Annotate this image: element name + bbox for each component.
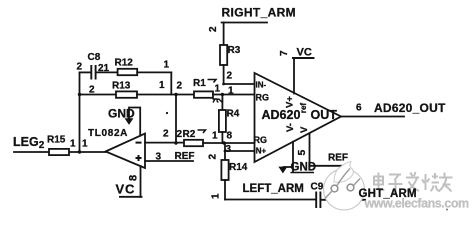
- resistor R14 body: [221, 160, 228, 180]
- svg-text:OUT: OUT: [311, 108, 338, 122]
- pin tick of R2: [198, 130, 206, 133]
- svg-text:GHT_ARM: GHT_ARM: [359, 188, 417, 200]
- wire R3 top lead: [223, 23, 225, 46]
- svg-text:6: 6: [356, 103, 362, 114]
- tick below R1 pin: [213, 99, 218, 103]
- svg-text:2: 2: [77, 62, 83, 73]
- svg-text:LEFT_ARM: LEFT_ARM: [243, 183, 304, 195]
- wire R12 right: [137, 71, 171, 73]
- svg-text:21: 21: [98, 63, 110, 74]
- wire RIGHT_ARM top: [222, 22, 267, 24]
- svg-text:8: 8: [227, 131, 233, 142]
- svg-text:2: 2: [89, 85, 95, 96]
- svg-text:5: 5: [296, 150, 308, 156]
- svg-text:RG: RG: [256, 93, 270, 103]
- resistor R2 body: [184, 140, 203, 146]
- wire C8 row left: [80, 71, 91, 73]
- wire IN+ pin3: [225, 150, 255, 152]
- resistor R1 body: [194, 91, 213, 97]
- svg-text:1: 1: [159, 80, 165, 91]
- svg-text:R4: R4: [227, 109, 240, 120]
- wire inverting node vertical: [175, 95, 177, 144]
- resistor R3 body: [220, 45, 227, 65]
- watermark chinese glyphs: [374, 172, 453, 193]
- svg-text:2: 2: [163, 129, 169, 140]
- wire R3 bottom lead: [223, 65, 225, 84]
- svg-text:1: 1: [211, 193, 222, 199]
- resistor R15 body: [49, 149, 69, 155]
- svg-text:R14: R14: [229, 162, 248, 173]
- ground arrow AD620: [278, 167, 287, 174]
- svg-text:R1: R1: [193, 78, 206, 89]
- wire corner down to R13 row: [170, 72, 172, 94]
- wire AD620 vcc pin7: [293, 58, 295, 94]
- wire noninverting REF row: [145, 160, 193, 162]
- svg-text:7: 7: [279, 50, 290, 56]
- svg-text:C8: C8: [88, 52, 101, 63]
- svg-text:TL082A: TL082A: [88, 128, 128, 139]
- svg-text:1: 1: [215, 84, 221, 95]
- wire down to R14: [224, 143, 226, 160]
- svg-text:AD620: AD620: [262, 108, 301, 122]
- power bar VC TL082: [120, 196, 142, 198]
- resistor R12 body: [118, 69, 138, 75]
- svg-text:GND: GND: [291, 162, 317, 174]
- svg-text:2: 2: [227, 71, 233, 82]
- wire IN- pin2: [224, 83, 255, 85]
- svg-text:AD620_OUT: AD620_OUT: [374, 101, 446, 115]
- wire R14 bottom lead: [224, 180, 226, 200]
- plus sign TL082: [136, 155, 142, 161]
- svg-text:2: 2: [177, 81, 183, 92]
- svg-text:V+: V+: [285, 96, 296, 108]
- wire R1 to RG pin1: [213, 94, 255, 96]
- svg-text:GND: GND: [108, 107, 135, 121]
- wire R4 bottom lead: [221, 132, 223, 143]
- resistor R13 body: [116, 91, 137, 97]
- minus sign TL082: [136, 142, 142, 144]
- svg-text:3: 3: [226, 144, 232, 155]
- capacitor C8 bars: [91, 66, 95, 79]
- svg-text:2: 2: [215, 98, 225, 103]
- svg-text:R3: R3: [228, 45, 241, 56]
- svg-text:2: 2: [208, 26, 219, 32]
- svg-text:1: 1: [164, 60, 170, 71]
- resistor R4 body: [219, 110, 226, 132]
- wire R13 to R1: [137, 94, 194, 96]
- svg-text:R15: R15: [47, 135, 66, 146]
- wire R4 top lead: [221, 95, 223, 111]
- svg-text:REF: REF: [175, 151, 195, 162]
- svg-text:1: 1: [228, 86, 234, 97]
- op-amp U3 triangle AD620: [255, 73, 342, 162]
- wire AD620 ref pin5: [309, 134, 311, 166]
- svg-text:R12: R12: [115, 58, 134, 69]
- wire inverting input row: [145, 142, 184, 144]
- power bar REF: [310, 165, 343, 167]
- wire output row: [14, 151, 106, 153]
- svg-text:1: 1: [70, 139, 76, 150]
- wire AD620 output pin6: [341, 116, 404, 118]
- svg-text:2: 2: [208, 154, 219, 160]
- svg-text:VC: VC: [297, 47, 312, 59]
- wire LEFT_ARM bottom: [225, 199, 315, 201]
- svg-text:R2: R2: [183, 129, 196, 140]
- capacitor C9 bars: [316, 193, 320, 208]
- junction dots: [78, 83, 227, 154]
- wire AD620 gnd pin4: [284, 142, 294, 172]
- wire C8 to R12: [97, 71, 118, 73]
- pin tick of R1: [208, 80, 217, 83]
- speck dot: [446, 209, 448, 211]
- wire feedback-left vertical: [79, 72, 81, 152]
- svg-text:RIGHT_ARM: RIGHT_ARM: [222, 6, 296, 20]
- ground arrow TL082: [125, 118, 134, 125]
- wire C9 right: [321, 199, 365, 201]
- wire TL082 gnd pin: [129, 108, 140, 136]
- underline GND AD620: [291, 172, 315, 174]
- svg-text:RG: RG: [254, 135, 268, 145]
- wire TL082 vcc pin: [140, 166, 142, 197]
- svg-text:IN+: IN+: [254, 147, 267, 156]
- svg-text:1: 1: [212, 131, 218, 142]
- power bar VC AD620: [293, 57, 314, 59]
- svg-text:8: 8: [128, 175, 140, 181]
- svg-text:C9: C9: [311, 182, 324, 193]
- svg-text:LEG2: LEG2: [13, 135, 45, 151]
- wire R2 to RG pin8: [203, 142, 255, 144]
- op-amp U2A triangle TL082A: [106, 134, 145, 169]
- svg-text:R13: R13: [112, 81, 131, 92]
- svg-text:VC: VC: [116, 182, 136, 197]
- svg-text:1: 1: [82, 139, 88, 150]
- svg-text:REF: REF: [328, 153, 348, 164]
- wire R13 row left: [80, 94, 117, 96]
- svg-text:V-: V-: [285, 123, 296, 132]
- svg-text:IN-: IN-: [256, 81, 267, 90]
- watermark logo circle: [324, 162, 365, 211]
- svg-text:3: 3: [156, 152, 162, 163]
